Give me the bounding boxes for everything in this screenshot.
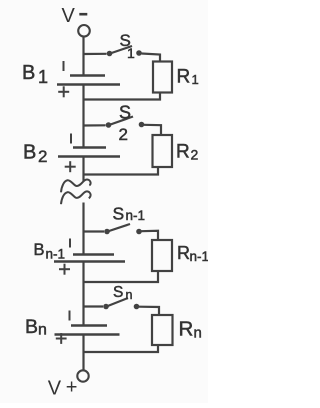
resistor R1 [153, 62, 172, 93]
label R1 [177, 67, 199, 88]
svg-text:n-1: n-1 [126, 208, 146, 223]
svg-text:n-1: n-1 [190, 249, 209, 264]
wire [82, 335, 84, 371]
label S2 [119, 103, 132, 145]
wire [84, 53, 107, 55]
wire [144, 125, 161, 135]
wire [139, 307, 159, 315]
label R2 [176, 142, 199, 163]
label B1 [22, 62, 48, 87]
wire [84, 305, 104, 307]
svg-text:1: 1 [127, 45, 135, 61]
label Sn [113, 284, 133, 302]
label Rn [179, 318, 202, 342]
break symbol [61, 179, 91, 204]
svg-text:R: R [177, 67, 191, 88]
svg-text:2: 2 [191, 147, 199, 163]
battery Bn-1 [54, 239, 125, 275]
wire [82, 203, 84, 255]
terminal V+ [77, 370, 88, 381]
svg-text:R: R [176, 142, 190, 163]
wire [82, 262, 84, 326]
svg-text:B: B [34, 241, 45, 259]
battery B2 [58, 134, 120, 173]
wire [142, 54, 161, 62]
svg-text:2: 2 [119, 125, 128, 144]
label Rn-1 [177, 243, 209, 264]
switch Sn [103, 298, 139, 309]
svg-text:+: + [66, 377, 78, 399]
svg-text:S: S [119, 103, 131, 123]
svg-text:B: B [23, 142, 36, 164]
resistor Rn-1 [152, 240, 172, 271]
terminal V- [78, 25, 90, 37]
resistor Rn [152, 315, 173, 345]
label V+ [48, 377, 78, 400]
wire [82, 157, 84, 182]
svg-text:S: S [113, 204, 125, 224]
svg-text:2: 2 [38, 147, 47, 166]
svg-text:n: n [126, 288, 133, 302]
label V- [62, 5, 88, 27]
wire [84, 93, 161, 100]
wire [84, 167, 159, 175]
svg-text:n: n [194, 325, 202, 342]
switch Sn-1 [104, 224, 142, 234]
label S1 [120, 31, 136, 61]
battery Bn [55, 311, 120, 344]
svg-text:1: 1 [192, 72, 199, 87]
wire [84, 124, 106, 126]
wire [142, 231, 159, 240]
svg-text:V: V [62, 5, 76, 27]
label Bn [25, 316, 47, 339]
switch S1 [107, 46, 142, 56]
svg-text:R: R [177, 243, 190, 263]
battery B1 [57, 61, 120, 97]
label Sn-1 [113, 204, 146, 224]
svg-text:1: 1 [38, 67, 48, 87]
svg-text:V: V [48, 378, 62, 400]
resistor R2 [153, 135, 173, 167]
wire [82, 85, 84, 148]
svg-text:B: B [25, 316, 38, 338]
svg-text:R: R [179, 318, 194, 341]
svg-text:S: S [113, 284, 123, 301]
switch S2 [106, 117, 145, 128]
label B2 [23, 142, 47, 167]
wire [84, 230, 105, 232]
svg-text:n-1: n-1 [46, 247, 66, 262]
wire [84, 271, 159, 282]
label Bn-1 [34, 241, 66, 262]
svg-text:B: B [22, 62, 35, 84]
wire [82, 37, 84, 75]
wire [84, 345, 159, 352]
svg-text:n: n [38, 322, 47, 339]
